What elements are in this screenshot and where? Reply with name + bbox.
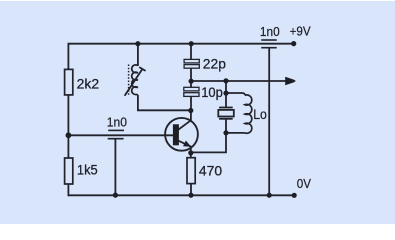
svg-text:10p: 10p bbox=[201, 84, 223, 100]
inductor L2 Lo coil bbox=[245, 95, 252, 133]
junction dot Lo top bbox=[223, 91, 228, 96]
wire Lo bottom bbox=[226, 132, 245, 134]
capacitor C2 22p plate1 bbox=[184, 59, 199, 63]
junction dot top lineA bbox=[189, 41, 194, 46]
capacitor C4 1n0 bottom plate bbox=[261, 47, 277, 49]
terminal dot +9V bbox=[291, 41, 296, 46]
wire C4 down bbox=[268, 48, 270, 196]
svg-text:470: 470 bbox=[199, 163, 222, 179]
wire R3 to bottom rail bbox=[190, 184, 192, 196]
transistor Q1 emitter bbox=[178, 141, 191, 153]
capacitor C3 10p plate1 bbox=[184, 87, 199, 91]
junction dot base rail bbox=[66, 132, 72, 138]
wire crystal branch upper bbox=[225, 81, 227, 108]
inductor L1 coil bbox=[132, 65, 138, 95]
svg-text:22p: 22p bbox=[203, 55, 226, 71]
svg-text:0V: 0V bbox=[297, 177, 312, 191]
crystal X1 plate bottom bbox=[219, 118, 233, 120]
wire top rail bbox=[68, 43, 293, 45]
svg-text:1k5: 1k5 bbox=[77, 162, 98, 178]
transistor Q1 circle bbox=[165, 118, 198, 151]
svg-text:+9V: +9V bbox=[290, 25, 312, 39]
transistor Q1 emitter arrowhead bbox=[183, 141, 191, 147]
wire left rail upper bbox=[67, 43, 69, 69]
svg-text:Lo: Lo bbox=[253, 106, 267, 122]
crystal X1 box bbox=[218, 110, 234, 117]
junction dot R3 bottom bbox=[188, 193, 193, 198]
capacitor C2 22p plate2 bbox=[184, 65, 199, 69]
junction dot lineA wireB bbox=[189, 79, 194, 84]
wire Lo top bbox=[226, 93, 245, 95]
wire left rail middle bbox=[67, 95, 69, 158]
resistor R1 2k2 bbox=[65, 69, 73, 95]
resistor R3 470 bbox=[187, 158, 195, 184]
crystal X1 plate top bbox=[219, 107, 233, 109]
inductor L1 core dashed bbox=[128, 65, 130, 96]
transistor Q1 base bar bbox=[173, 124, 179, 145]
svg-text:1n0: 1n0 bbox=[107, 116, 127, 130]
capacitor C3 10p plate2 bbox=[184, 93, 199, 97]
wire bottom rail bbox=[68, 194, 294, 196]
junction dot emitter bbox=[188, 150, 193, 155]
wire varL bottom bbox=[138, 95, 191, 110]
transistor Q1 collector bbox=[178, 111, 191, 130]
resistor R2 1k5 bbox=[65, 158, 73, 184]
junction dot crystal wireB bbox=[223, 78, 228, 83]
junction dot varL lineA bbox=[188, 108, 193, 113]
wire crystal branch lower bbox=[191, 119, 226, 153]
wire line A mid1 bbox=[190, 68, 192, 87]
svg-text:1n0: 1n0 bbox=[260, 25, 280, 39]
wire base bbox=[68, 134, 173, 136]
wire varL top bbox=[137, 44, 139, 66]
inductor L1 preset arrow bbox=[125, 67, 146, 96]
wire left rail lower bbox=[67, 184, 69, 196]
wire line A mid2 bbox=[190, 96, 192, 110]
terminal dot 0V bbox=[292, 193, 297, 198]
wire emitter to R3 bbox=[190, 152, 192, 157]
junction dot top varL bbox=[135, 41, 140, 46]
capacitor C4 1n0 top plate bbox=[261, 39, 277, 41]
output arrowhead bbox=[285, 77, 296, 85]
wire C1 down bbox=[114, 139, 116, 196]
junction dot C4 bottom bbox=[267, 193, 272, 198]
capacitor C1 1n0 bottom plate bbox=[108, 138, 124, 140]
junction dot Lo bottom bbox=[223, 130, 228, 135]
wire line A top bbox=[190, 44, 192, 60]
junction dot C1 bottom bbox=[113, 193, 118, 198]
wire output B bbox=[191, 80, 288, 82]
capacitor C1 1n0 top plate bbox=[108, 129, 124, 131]
svg-text:2k2: 2k2 bbox=[77, 76, 100, 92]
